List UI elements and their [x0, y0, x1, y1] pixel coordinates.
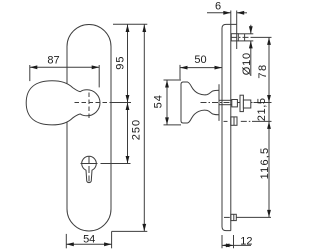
116,5 bottom	[267, 210, 271, 218]
54 side	[165, 80, 169, 88]
svg-text:54: 54	[83, 233, 95, 245]
12	[222, 244, 230, 248]
svg-text:54: 54	[153, 94, 165, 108]
95	[126, 25, 130, 33]
chain dims right	[268, 37, 270, 102]
54 bottom	[66, 242, 74, 246]
knob side profile	[181, 82, 219, 123]
dim 87	[30, 66, 99, 68]
6 top	[223, 11, 231, 15]
dim 6 top	[207, 12, 231, 14]
steel plate back line	[230, 24, 232, 230]
dim 54 side	[166, 80, 168, 125]
svg-text:250: 250	[131, 119, 143, 140]
dim 50	[180, 67, 222, 69]
shell profile	[222, 24, 237, 230]
spindle centerline	[201, 102, 254, 104]
21,5 outside arrows	[267, 121, 271, 128]
knob front view	[26, 81, 100, 125]
knob base disc edge	[218, 84, 220, 121]
Ø10	[249, 26, 253, 34]
knob centerline horizontal (dashed)	[75, 102, 125, 104]
chain knob->cyl	[126, 103, 130, 111]
chained dim knob->cyl	[127, 103, 129, 164]
front top extension	[113, 23, 147, 25]
dim 250	[143, 24, 145, 231]
bottom tab	[231, 214, 237, 220]
svg-text:116,5: 116,5	[259, 147, 271, 180]
cylinder pin side	[231, 117, 237, 125]
250	[142, 25, 146, 33]
spindle shaft	[219, 99, 232, 101]
spindle fixing parts	[232, 100, 238, 107]
svg-text:87: 87	[47, 55, 59, 67]
78	[267, 37, 271, 45]
svg-text:50: 50	[194, 54, 206, 66]
dim 54 bottom	[65, 234, 67, 248]
front view plate	[67, 25, 111, 232]
87	[30, 65, 38, 69]
top fixing element back line	[236, 24, 238, 49]
dim Ø10	[250, 25, 252, 34]
bottom extension right	[112, 230, 148, 232]
knob axis extension right	[113, 102, 132, 104]
svg-text:95: 95	[114, 55, 126, 69]
knob centerline vertical (dashed)	[88, 93, 90, 119]
svg-text:6: 6	[215, 1, 221, 13]
dim 95	[127, 24, 129, 102]
svg-text:21,5: 21,5	[256, 97, 268, 121]
top pin	[231, 34, 238, 41]
dim 12 bottom	[221, 235, 223, 248]
svg-text:78: 78	[257, 63, 269, 78]
50	[180, 66, 188, 70]
cylinder cross ticks + leader to dim	[81, 163, 98, 165]
svg-text:Ø10: Ø10	[241, 52, 253, 75]
svg-text:12: 12	[240, 235, 252, 247]
arrowheads	[30, 11, 271, 247]
cylinder keyhole	[82, 156, 97, 182]
